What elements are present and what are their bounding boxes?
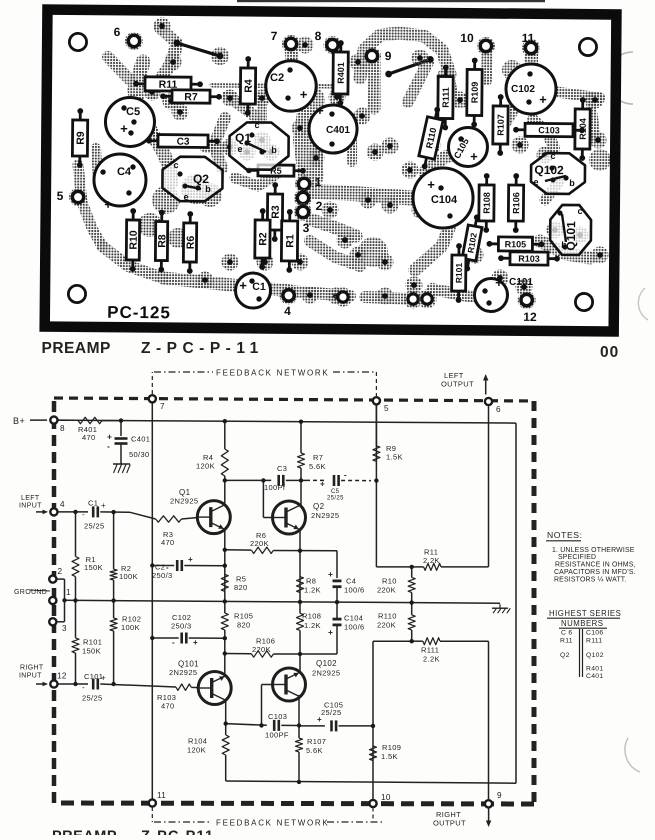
svg-text:1.2K: 1.2K bbox=[304, 621, 321, 630]
svg-text:3: 3 bbox=[62, 624, 67, 633]
svg-text:B+: B+ bbox=[13, 416, 25, 426]
svg-text:R7: R7 bbox=[184, 91, 198, 103]
svg-text:150K: 150K bbox=[82, 647, 101, 656]
svg-text:+: + bbox=[107, 432, 112, 442]
svg-text:R109: R109 bbox=[382, 743, 401, 752]
svg-text:470: 470 bbox=[82, 433, 96, 442]
svg-text:Z-PC-P11: Z-PC-P11 bbox=[141, 829, 214, 836]
svg-text:+: + bbox=[101, 674, 106, 683]
svg-text:8: 8 bbox=[60, 424, 65, 433]
svg-text:-: - bbox=[82, 510, 85, 519]
svg-text:HIGHEST SERIES: HIGHEST SERIES bbox=[549, 609, 621, 618]
svg-text:470: 470 bbox=[161, 538, 175, 547]
svg-text:12: 12 bbox=[523, 310, 537, 324]
svg-text:R101: R101 bbox=[83, 638, 102, 647]
svg-text:FEEDBACK NETWORK: FEEDBACK NETWORK bbox=[216, 369, 329, 378]
svg-text:c: c bbox=[255, 120, 260, 130]
svg-text:+: + bbox=[328, 569, 333, 579]
svg-text:R3: R3 bbox=[270, 205, 282, 219]
svg-text:C4: C4 bbox=[117, 166, 132, 178]
svg-text:7: 7 bbox=[160, 402, 165, 411]
svg-text:R107: R107 bbox=[307, 737, 326, 746]
svg-text:R111: R111 bbox=[441, 87, 451, 108]
svg-text:c: c bbox=[577, 206, 582, 216]
svg-text:+: + bbox=[470, 149, 478, 164]
svg-text:c: c bbox=[550, 151, 555, 161]
svg-text:C5: C5 bbox=[331, 489, 340, 495]
svg-text:2.2K: 2.2K bbox=[423, 655, 440, 664]
svg-text:-: - bbox=[107, 441, 110, 451]
svg-text:220K: 220K bbox=[377, 586, 396, 595]
svg-text:CAPACITORS IN MFD’S.: CAPACITORS IN MFD’S. bbox=[554, 569, 636, 576]
svg-text:250/3: 250/3 bbox=[171, 622, 192, 631]
svg-text:100PF: 100PF bbox=[265, 731, 289, 740]
svg-text:1.2K: 1.2K bbox=[304, 586, 321, 595]
svg-text:220K: 220K bbox=[250, 539, 269, 548]
svg-text:5: 5 bbox=[384, 404, 389, 413]
svg-text:250/3: 250/3 bbox=[152, 571, 173, 580]
svg-text:25/25: 25/25 bbox=[321, 708, 342, 717]
svg-text:+: + bbox=[539, 92, 547, 107]
svg-text:6: 6 bbox=[496, 405, 501, 414]
svg-text:C401: C401 bbox=[131, 435, 150, 444]
svg-text:12: 12 bbox=[57, 672, 67, 681]
svg-text:120K: 120K bbox=[187, 746, 206, 755]
svg-text:9: 9 bbox=[497, 791, 502, 800]
svg-text:-: - bbox=[344, 471, 347, 480]
svg-text:1: 1 bbox=[66, 588, 71, 597]
svg-text:00: 00 bbox=[600, 344, 619, 361]
svg-text:+: + bbox=[120, 121, 128, 136]
svg-text:e: e bbox=[183, 192, 188, 202]
svg-text:+: + bbox=[193, 638, 198, 647]
svg-text:4: 4 bbox=[60, 500, 65, 509]
svg-text:R104: R104 bbox=[188, 737, 207, 746]
svg-text:R106: R106 bbox=[511, 192, 521, 214]
svg-text:C401: C401 bbox=[586, 673, 603, 680]
svg-text:GROUND: GROUND bbox=[14, 589, 47, 596]
svg-text:R108: R108 bbox=[482, 192, 492, 214]
svg-text:FEEDBACK NETWORK: FEEDBACK NETWORK bbox=[216, 819, 329, 828]
svg-text:+: + bbox=[104, 197, 112, 212]
svg-text:NUMBERS: NUMBERS bbox=[561, 619, 604, 628]
svg-text:Z-PC-P-11: Z-PC-P-11 bbox=[141, 340, 264, 357]
svg-text:C3: C3 bbox=[177, 137, 190, 148]
svg-text:Q2: Q2 bbox=[560, 652, 570, 659]
svg-text:RESISTORS ¼ WATT.: RESISTORS ¼ WATT. bbox=[554, 577, 627, 584]
svg-text:OUTPUT: OUTPUT bbox=[441, 380, 474, 389]
svg-text:C103: C103 bbox=[268, 712, 287, 721]
svg-text:120K: 120K bbox=[196, 462, 215, 471]
svg-text:R9: R9 bbox=[75, 131, 87, 145]
svg-text:C 6: C 6 bbox=[561, 630, 572, 637]
svg-text:C4: C4 bbox=[346, 577, 356, 586]
svg-text:b: b bbox=[205, 184, 211, 194]
svg-text:R110: R110 bbox=[378, 612, 397, 621]
svg-text:2: 2 bbox=[58, 567, 63, 576]
svg-text:C103: C103 bbox=[538, 125, 560, 135]
svg-text:RIGHT: RIGHT bbox=[20, 665, 44, 672]
svg-text:C2: C2 bbox=[270, 72, 284, 84]
svg-text:470: 470 bbox=[161, 702, 175, 711]
svg-text:10: 10 bbox=[460, 31, 474, 45]
svg-text:10: 10 bbox=[381, 793, 391, 802]
svg-text:+: + bbox=[316, 103, 324, 118]
svg-text:2: 2 bbox=[316, 199, 323, 213]
svg-text:-: - bbox=[172, 638, 175, 647]
svg-text:5.6K: 5.6K bbox=[306, 746, 323, 755]
svg-text:+: + bbox=[188, 555, 193, 564]
svg-text:3: 3 bbox=[303, 221, 310, 235]
svg-text:R401: R401 bbox=[586, 666, 603, 673]
svg-text:+: + bbox=[101, 501, 106, 510]
svg-text:R7: R7 bbox=[313, 453, 323, 462]
svg-text:1.5K: 1.5K bbox=[386, 453, 403, 462]
svg-text:C401: C401 bbox=[326, 125, 350, 136]
svg-text:e: e bbox=[237, 144, 242, 154]
svg-text:OUTPUT: OUTPUT bbox=[433, 819, 466, 828]
svg-text:PREAMP: PREAMP bbox=[42, 340, 111, 357]
svg-text:+: + bbox=[427, 177, 435, 192]
svg-text:Q102: Q102 bbox=[316, 659, 337, 668]
svg-text:1.5K: 1.5K bbox=[381, 752, 398, 761]
svg-text:25/25: 25/25 bbox=[82, 694, 103, 703]
svg-text:7: 7 bbox=[271, 29, 278, 43]
svg-text:R109: R109 bbox=[470, 82, 480, 104]
svg-text:1: 1 bbox=[315, 175, 322, 189]
svg-text:820: 820 bbox=[234, 583, 248, 592]
svg-text:R4: R4 bbox=[243, 79, 255, 93]
svg-text:8: 8 bbox=[315, 29, 322, 43]
svg-text:+: + bbox=[239, 278, 247, 293]
svg-text:2N2925: 2N2925 bbox=[170, 497, 198, 506]
svg-text:150K: 150K bbox=[84, 563, 103, 572]
svg-text:INPUT: INPUT bbox=[19, 673, 42, 680]
svg-text:R10: R10 bbox=[382, 577, 397, 586]
svg-text:R8: R8 bbox=[156, 234, 168, 248]
svg-text:NOTES:: NOTES: bbox=[547, 530, 583, 540]
svg-text:+: + bbox=[320, 480, 325, 489]
svg-text:RESISTANCE IN OHMS,: RESISTANCE IN OHMS, bbox=[555, 562, 636, 569]
svg-text:R1: R1 bbox=[284, 234, 296, 248]
svg-text:Q2: Q2 bbox=[313, 502, 325, 511]
svg-text:LEFT: LEFT bbox=[21, 495, 40, 502]
svg-text:9: 9 bbox=[385, 49, 392, 63]
svg-text:R105: R105 bbox=[234, 612, 253, 621]
svg-text:b: b bbox=[271, 145, 277, 155]
svg-text:100K: 100K bbox=[119, 572, 138, 581]
svg-text:Q102: Q102 bbox=[586, 652, 604, 659]
svg-text:PREAMP: PREAMP bbox=[52, 829, 117, 836]
svg-text:Q102: Q102 bbox=[534, 163, 564, 177]
svg-text:2N2925: 2N2925 bbox=[312, 669, 340, 678]
svg-text:R11: R11 bbox=[560, 638, 573, 645]
svg-text:+: + bbox=[328, 627, 333, 637]
svg-text:820: 820 bbox=[237, 621, 251, 630]
svg-text:5: 5 bbox=[57, 189, 64, 203]
svg-text:R111: R111 bbox=[421, 646, 439, 655]
svg-text:100Pf: 100Pf bbox=[264, 483, 286, 492]
svg-text:R101: R101 bbox=[454, 263, 464, 284]
svg-text:220K: 220K bbox=[252, 645, 271, 654]
svg-text:C102: C102 bbox=[511, 84, 535, 95]
svg-text:25/25: 25/25 bbox=[327, 496, 344, 502]
svg-text:100/6: 100/6 bbox=[344, 586, 365, 595]
svg-text:C1: C1 bbox=[88, 499, 98, 508]
svg-text:-: - bbox=[82, 683, 85, 692]
svg-text:4: 4 bbox=[284, 304, 291, 318]
svg-text:c: c bbox=[173, 160, 178, 170]
svg-text:25/25: 25/25 bbox=[84, 522, 105, 531]
svg-text:C104: C104 bbox=[431, 194, 458, 206]
svg-text:+: + bbox=[495, 275, 503, 290]
svg-text:C1: C1 bbox=[252, 281, 266, 293]
svg-text:+: + bbox=[300, 87, 308, 102]
svg-text:e: e bbox=[534, 177, 539, 187]
svg-text:5.6K: 5.6K bbox=[309, 462, 326, 471]
svg-text:R107: R107 bbox=[496, 114, 506, 136]
svg-text:2N2925: 2N2925 bbox=[311, 511, 339, 520]
svg-text:PC-125: PC-125 bbox=[107, 303, 171, 323]
svg-text:100K: 100K bbox=[121, 623, 140, 632]
svg-text:2.2K: 2.2K bbox=[423, 556, 440, 565]
svg-text:R2: R2 bbox=[257, 232, 269, 246]
svg-text:C101: C101 bbox=[509, 277, 533, 288]
svg-text:R6: R6 bbox=[185, 236, 197, 250]
svg-text:C5: C5 bbox=[126, 106, 140, 118]
svg-text:C3: C3 bbox=[277, 464, 287, 473]
svg-text:220K: 220K bbox=[377, 621, 396, 630]
svg-text:1. UNLESS OTHERWISE: 1. UNLESS OTHERWISE bbox=[552, 547, 635, 554]
svg-text:C106: C106 bbox=[586, 630, 603, 637]
svg-text:SPECIFIED: SPECIFIED bbox=[558, 554, 596, 561]
svg-text:R103: R103 bbox=[518, 254, 540, 264]
svg-text:R10: R10 bbox=[128, 230, 140, 250]
svg-text:50/30: 50/30 bbox=[129, 450, 150, 459]
svg-text:6: 6 bbox=[114, 25, 121, 39]
svg-text:R105: R105 bbox=[505, 239, 527, 249]
svg-text:b: b bbox=[569, 178, 575, 188]
svg-text:11: 11 bbox=[522, 31, 535, 45]
svg-text:R111: R111 bbox=[586, 638, 602, 645]
svg-text:INPUT: INPUT bbox=[19, 503, 42, 510]
svg-text:R8: R8 bbox=[306, 577, 316, 586]
svg-text:R108: R108 bbox=[302, 612, 321, 621]
svg-text:11: 11 bbox=[157, 791, 166, 800]
svg-text:2N2925: 2N2925 bbox=[169, 668, 197, 677]
svg-text:R401: R401 bbox=[336, 62, 346, 84]
svg-text:100/6: 100/6 bbox=[344, 623, 365, 632]
svg-text:C104: C104 bbox=[344, 614, 363, 623]
